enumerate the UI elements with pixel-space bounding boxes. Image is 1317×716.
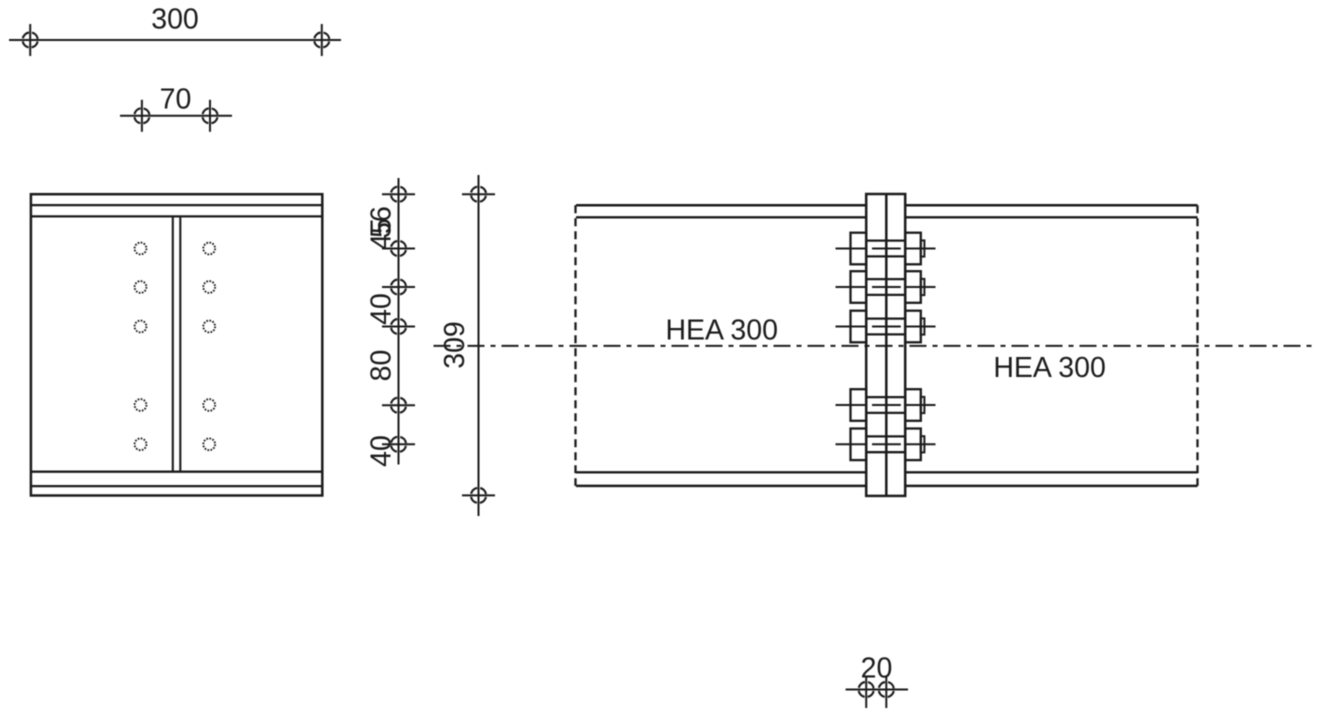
svg-text:40: 40 <box>366 435 398 467</box>
svg-text:300: 300 <box>151 3 199 35</box>
svg-text:20: 20 <box>861 653 893 685</box>
svg-text:HEA 300: HEA 300 <box>665 315 778 347</box>
svg-text:45: 45 <box>366 218 398 250</box>
svg-text:40: 40 <box>366 293 398 325</box>
svg-text:70: 70 <box>160 84 192 116</box>
svg-text:HEA 300: HEA 300 <box>993 352 1106 384</box>
svg-text:80: 80 <box>366 350 398 382</box>
